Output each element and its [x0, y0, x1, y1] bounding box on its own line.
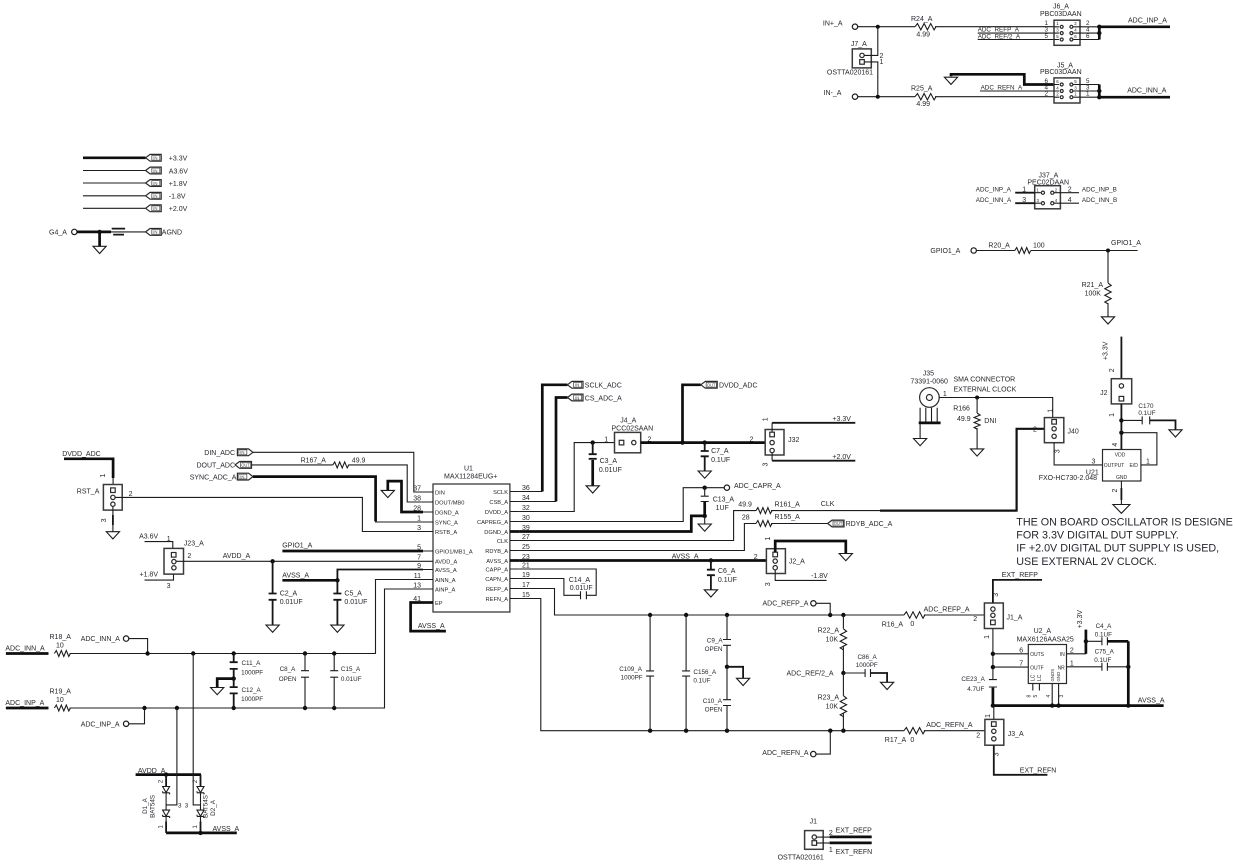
svg-text:1: 1: [984, 635, 991, 639]
wire AINP row: [70, 589, 423, 708]
node DVDD_ADC left: [62, 451, 113, 484]
U1 left pin names: [435, 490, 473, 607]
svg-text:GPIO1/MB1_A: GPIO1/MB1_A: [435, 549, 473, 555]
svg-text:2: 2: [1068, 187, 1072, 194]
wire REFP pin17 row: [520, 589, 904, 616]
svg-text:CAPN_A: CAPN_A: [485, 577, 508, 583]
svg-text:OPEN: OPEN: [705, 706, 723, 713]
svg-text:1: 1: [943, 391, 947, 398]
svg-text:GNDS: GNDS: [1050, 669, 1055, 682]
resistor R19_A 10: [50, 689, 72, 711]
svg-text:U1: U1: [464, 466, 473, 473]
wire J35 pin1 to J40: [939, 391, 1052, 417]
wire CLK pin27: [520, 511, 756, 541]
svg-text:3: 3: [1086, 84, 1090, 91]
svg-text:3: 3: [185, 803, 189, 810]
svg-text:CS_ADC_A: CS_ADC_A: [585, 395, 622, 402]
svg-text:DVDD_A: DVDD_A: [485, 510, 508, 516]
wire IN- to R25: [858, 96, 915, 98]
svg-text:2: 2: [1033, 427, 1037, 434]
svg-text:1: 1: [167, 536, 171, 543]
wire/label ADC_INN_B J37 pin4: [1060, 197, 1117, 204]
junction C6: [709, 558, 713, 562]
connector J37_A PEC02DAAN: [1027, 172, 1069, 209]
node ADC_REF/2_A at J6: [978, 34, 1054, 41]
svg-text:0.01UF: 0.01UF: [570, 585, 593, 592]
svg-text:DOUT_ADC: DOUT_ADC: [197, 463, 236, 470]
svg-text:ADC_INN_B: ADC_INN_B: [1082, 197, 1117, 204]
wire J1 pin2 EXT_REFP: [817, 827, 873, 837]
svg-text:+2.0V: +2.0V: [169, 206, 188, 213]
capacitor C12_A 1000PF: [230, 679, 264, 708]
junction GPIO1: [1106, 249, 1110, 253]
wire net ADC_INP_A: [1099, 18, 1170, 27]
tag DIN_ADC: [204, 449, 253, 457]
svg-text:4: 4: [1112, 443, 1119, 447]
svg-text:C14_A: C14_A: [569, 577, 591, 584]
resistor R167_A 49.9: [252, 458, 366, 468]
IC U21 FXO-HC730-2.048: [1039, 450, 1141, 483]
svg-text:2: 2: [829, 830, 833, 837]
terminal IN-_A: [824, 90, 858, 99]
terminal IN+_A: [823, 20, 858, 29]
connector RST_A: [77, 485, 122, 511]
svg-text:5: 5: [1045, 33, 1049, 40]
svg-text:4: 4: [1046, 695, 1052, 698]
junction AVDD diode: [164, 772, 168, 776]
svg-text:IN+_A: IN+_A: [823, 20, 843, 27]
wire R17 to J3_A: [924, 722, 985, 740]
svg-text:ADC_INP_A: ADC_INP_A: [976, 187, 1012, 194]
terminal ADC_REFP_A: [763, 601, 831, 615]
svg-text:3: 3: [417, 525, 421, 532]
svg-text:49.9: 49.9: [738, 502, 752, 509]
svg-text:PBC03DAAN: PBC03DAAN: [1040, 11, 1082, 18]
svg-text:R161_A: R161_A: [775, 502, 801, 509]
svg-text:RDYB_ADC_A: RDYB_ADC_A: [846, 521, 893, 528]
connector J4_A PCC02SAAN: [604, 418, 653, 453]
wire R25 to J5: [935, 96, 1054, 98]
capacitor C15_A 0.01UF: [330, 654, 362, 709]
svg-text:1: 1: [762, 417, 769, 421]
svg-text:GND: GND: [1116, 475, 1128, 481]
svg-text:AINP_A: AINP_A: [435, 587, 455, 593]
wire U2 pin7 OUTF: [993, 661, 1028, 668]
svg-text:FXO-HC730-2.048: FXO-HC730-2.048: [1039, 475, 1097, 482]
svg-text:0.01UF: 0.01UF: [280, 599, 303, 606]
svg-text:0.01UF: 0.01UF: [344, 599, 367, 606]
svg-text:28: 28: [413, 505, 421, 512]
svg-text:G4_A: G4_A: [49, 230, 67, 237]
power flag A3.6V: [83, 167, 188, 175]
capacitor C6_A 0.1UF: [707, 561, 737, 590]
svg-text:PBC03DAAN: PBC03DAAN: [1040, 69, 1082, 76]
svg-text:VDD: VDD: [1115, 452, 1126, 458]
svg-text:3: 3: [1092, 458, 1096, 465]
svg-text:3: 3: [178, 803, 182, 810]
wire GPIO1_A net: [1031, 240, 1141, 251]
capacitor CE23_A 4.7UF: [961, 676, 997, 706]
svg-text:0.1UF: 0.1UF: [1138, 410, 1155, 417]
resistor R155_A 28: [742, 514, 800, 526]
svg-text:3: 3: [994, 752, 1001, 756]
wire J5 outputs bus: [1080, 85, 1099, 99]
ground G4: [93, 232, 106, 254]
svg-text:1: 1: [1048, 409, 1055, 413]
svg-text:2: 2: [754, 554, 758, 561]
svg-text:1: 1: [765, 537, 772, 541]
svg-text:EXT_REFN: EXT_REFN: [1020, 768, 1057, 775]
svg-text:1000PF: 1000PF: [621, 675, 643, 682]
svg-text:0.01UF: 0.01UF: [341, 676, 362, 683]
svg-text:GND: GND: [1056, 672, 1061, 682]
junction DVDD tag drop: [680, 440, 684, 444]
junction ADC_REF/2: [787, 670, 846, 677]
svg-text:6: 6: [1086, 33, 1090, 40]
wire J1_A pin1 down: [984, 629, 993, 680]
tag RDYB_ADC_A: [771, 520, 893, 528]
svg-text:FOR 3.3V DIGITAL DUT SUPPLY.: FOR 3.3V DIGITAL DUT SUPPLY.: [1016, 530, 1179, 542]
capacitor C156_A 0.1UF: [682, 615, 717, 731]
svg-text:13: 13: [413, 582, 421, 589]
svg-text:J32: J32: [788, 437, 799, 444]
svg-text:2: 2: [973, 616, 977, 623]
svg-text:EXT_REFP: EXT_REFP: [836, 827, 873, 834]
svg-text:C170: C170: [1138, 403, 1154, 410]
wire C4 right vertical: [1127, 641, 1130, 705]
svg-text:ADC_INP_A: ADC_INP_A: [5, 700, 44, 707]
junction J4 pin1 C3: [591, 440, 595, 444]
tag DOUT_ADC: [197, 462, 252, 470]
op-amp U1 MAX11284EUG+ box: [433, 466, 510, 612]
wire +3.3V U2: [1077, 610, 1086, 654]
ground C6: [704, 590, 717, 597]
wire U2 pin2 IN: [1067, 647, 1086, 654]
svg-text:PCC02SAAN: PCC02SAAN: [612, 426, 654, 433]
capacitor C86_A 1000PF: [843, 654, 887, 682]
svg-text:R19_A: R19_A: [50, 689, 72, 696]
svg-text:OPEN: OPEN: [705, 646, 723, 653]
connector J6_A PBC03DAAN: [1040, 4, 1090, 46]
wire AVSS pin23 row: [520, 553, 767, 560]
node ADC_INN_A left: [5, 646, 48, 654]
wire U2 pin1 NR / capacitor C75_A 0.1UF: [1067, 648, 1129, 671]
svg-text:IF +2.0V DIGITAL DUT SUPPLY IS: IF +2.0V DIGITAL DUT SUPPLY IS USED,: [1016, 543, 1219, 555]
svg-text:4.99: 4.99: [916, 101, 930, 108]
diode D1_A BAT54S: [142, 775, 182, 833]
svg-text:ADC_REFN_A: ADC_REFN_A: [981, 84, 1023, 91]
svg-text:REFP_A: REFP_A: [486, 587, 508, 593]
ground J2_A pin1: [839, 554, 852, 561]
ground C7: [698, 471, 711, 478]
wire CSB into pin34: [520, 501, 556, 503]
svg-text:J40: J40: [1068, 429, 1079, 436]
wire diode bottom AVSS_A: [166, 826, 239, 833]
svg-text:+3.3V: +3.3V: [1077, 610, 1084, 629]
ground C86: [881, 682, 894, 689]
wire AINN row: [70, 580, 423, 654]
svg-text:2: 2: [158, 779, 165, 783]
svg-text:C13_A: C13_A: [713, 496, 735, 503]
svg-text:DIN_ADC: DIN_ADC: [204, 450, 235, 457]
wire J1_A pin3 EXT_REFP: [993, 572, 1042, 603]
svg-text:AVDD_A: AVDD_A: [435, 560, 458, 566]
wire J7 pin2: [864, 27, 883, 61]
note text: [1016, 516, 1233, 568]
svg-text:CE23_A: CE23_A: [961, 676, 985, 683]
ground U21: [1113, 505, 1130, 514]
U2 bottom pin stubs: [1027, 684, 1065, 706]
connector J2_A: [754, 549, 805, 574]
junction J5 bus: [1097, 89, 1101, 100]
capacitor C8_A OPEN: [279, 654, 309, 709]
wire net ADC_INN_A: [1099, 88, 1170, 98]
svg-text:37: 37: [413, 485, 421, 492]
svg-text:-1.8V: -1.8V: [811, 573, 828, 580]
svg-text:ADC_INN_A: ADC_INN_A: [81, 636, 121, 643]
svg-text:17: 17: [522, 582, 530, 589]
svg-text:OPEN: OPEN: [279, 676, 297, 683]
svg-text:+1.8V: +1.8V: [140, 572, 159, 579]
svg-text:CAPREG_A: CAPREG_A: [477, 520, 508, 526]
svg-text:OUTF: OUTF: [1030, 665, 1044, 671]
node ADC_REFP_A at J6: [978, 27, 1054, 34]
wire GPIO1_A row: [282, 543, 423, 551]
svg-text:100: 100: [1033, 242, 1045, 249]
capacitor C5_A 0.01UF: [333, 580, 367, 625]
wire DVDD_A pin32 to J4 pin1: [520, 443, 615, 512]
connector J23_A: [164, 540, 204, 574]
wire J40 pin3 to U21: [1054, 443, 1102, 466]
svg-text:4.7UF: 4.7UF: [967, 686, 984, 693]
svg-text:ADC_INP_B: ADC_INP_B: [1082, 187, 1117, 194]
node AVDD_A diodes: [136, 768, 201, 775]
svg-text:3: 3: [167, 583, 171, 590]
svg-text:1: 1: [192, 825, 199, 829]
svg-text:DOUT/MB0: DOUT/MB0: [435, 500, 464, 506]
svg-text:38: 38: [413, 495, 421, 502]
wire J32 pin3 +2.0V: [762, 453, 855, 467]
svg-text:IN-_A: IN-_A: [824, 90, 842, 97]
svg-text:SYNC_A: SYNC_A: [435, 520, 458, 526]
svg-text:ADC_INN_A: ADC_INN_A: [5, 646, 45, 653]
wire thick hook to J5 pin6: [951, 74, 1054, 84]
svg-text:3: 3: [762, 463, 769, 467]
node A3.6V J23: [139, 534, 173, 549]
svg-text:R17_A: R17_A: [885, 737, 907, 744]
svg-text:AVSS_A: AVSS_A: [672, 553, 699, 560]
tag SCLK_ADC: [542, 381, 621, 491]
capacitor C13_A 1UF: [701, 488, 735, 516]
wire J2 pin1 down: [1109, 404, 1122, 433]
svg-text:CAPP_A: CAPP_A: [486, 567, 509, 573]
power flag +1.8V: [83, 180, 188, 188]
connector J40: [1033, 409, 1079, 443]
svg-text:J4_A: J4_A: [620, 418, 636, 425]
svg-text:RDYB_A: RDYB_A: [485, 549, 508, 555]
svg-text:J37_A: J37_A: [1039, 172, 1059, 179]
svg-text:C12_A: C12_A: [242, 687, 262, 694]
wire U21 GND pin2: [1112, 481, 1122, 505]
svg-text:0.01UF: 0.01UF: [599, 467, 622, 474]
ground R21: [1101, 317, 1114, 324]
resistor R16_A 0: [882, 612, 925, 629]
capacitor C170 0.1UF: [1121, 403, 1175, 430]
resistor R22_A 10K: [818, 615, 847, 673]
capacitor C11_A 1000PF: [230, 654, 264, 679]
svg-text:E/D: E/D: [1130, 463, 1139, 469]
svg-text:2: 2: [129, 491, 133, 498]
svg-text:USE EXTERNAL 2V CLOCK.: USE EXTERNAL 2V CLOCK.: [1016, 556, 1157, 568]
junction AVSS row: [991, 703, 1131, 707]
power flag +3.3V: [83, 154, 188, 162]
svg-text:RSTB_A: RSTB_A: [435, 530, 457, 536]
svg-text:ADC_INP_A: ADC_INP_A: [1128, 18, 1167, 25]
terminal ADC_INP_A: [81, 708, 145, 728]
svg-text:73391-0060: 73391-0060: [911, 379, 948, 386]
IC U2_A MAX6126AASA25: [1017, 628, 1074, 683]
capacitor C2_A 0.01UF: [269, 561, 303, 625]
svg-text:1000PF: 1000PF: [856, 662, 878, 669]
svg-text:36: 36: [522, 485, 530, 492]
svg-text:J3_A: J3_A: [1008, 731, 1024, 738]
wire IN+ to R24: [858, 26, 915, 28]
svg-text:ADC_CAPR_A: ADC_CAPR_A: [734, 483, 781, 490]
wire G4_A: [77, 231, 146, 234]
svg-text:3: 3: [1059, 695, 1065, 698]
svg-text:0.1UF: 0.1UF: [711, 457, 730, 464]
svg-text:AVSS_A: AVSS_A: [213, 826, 240, 833]
svg-text:THE ON BOARD OSCILLATOR IS DES: THE ON BOARD OSCILLATOR IS DESIGNED: [1016, 516, 1233, 528]
junction AINN row: [145, 651, 336, 655]
svg-text:C9_A: C9_A: [707, 638, 724, 645]
svg-text:0.1UF: 0.1UF: [1094, 657, 1111, 664]
svg-text:1UF: 1UF: [716, 505, 729, 512]
wire U21 E/D pin1 loop: [1121, 433, 1157, 466]
svg-text:C11_A: C11_A: [242, 660, 262, 667]
svg-text:C3_A: C3_A: [600, 458, 618, 465]
svg-text:R167_A: R167_A: [301, 458, 327, 465]
svg-text:1: 1: [1146, 458, 1150, 465]
svg-text:R20_A: R20_A: [988, 242, 1010, 249]
wire AVDD_A row: [176, 553, 423, 561]
svg-text:AVSS_A: AVSS_A: [282, 572, 309, 579]
svg-text:C2_A: C2_A: [280, 591, 298, 598]
svg-text:3: 3: [993, 593, 1000, 597]
svg-text:3: 3: [1055, 449, 1062, 453]
svg-text:SYNC_ADC_A: SYNC_ADC_A: [190, 475, 237, 482]
wire R16 to J1_A: [924, 607, 985, 623]
svg-text:ADC_INP_A: ADC_INP_A: [81, 721, 120, 728]
connector J3_A: [985, 719, 1024, 745]
tag SYNC_ADC_A: [190, 473, 253, 481]
svg-text:R23_A: R23_A: [818, 695, 840, 702]
svg-text:34: 34: [522, 495, 530, 502]
connector J32: [750, 430, 800, 456]
svg-text:BAT54S: BAT54S: [202, 795, 209, 818]
svg-text:J6_A: J6_A: [1053, 4, 1069, 11]
svg-text:1: 1: [1109, 413, 1116, 417]
svg-text:IN: IN: [1060, 652, 1065, 658]
svg-text:CLK: CLK: [821, 501, 835, 508]
node ADC_INP_A left: [5, 700, 48, 708]
connector J1 OSTTA020161: [778, 819, 824, 862]
junction G4: [97, 230, 101, 234]
svg-text:49.9: 49.9: [352, 458, 366, 465]
SMA shield: [914, 408, 941, 446]
svg-text:J1: J1: [810, 819, 818, 826]
svg-text:1: 1: [829, 847, 833, 854]
svg-text:OSTTA020161: OSTTA020161: [827, 69, 873, 76]
svg-text:2: 2: [187, 553, 191, 560]
svg-text:D1_A: D1_A: [142, 797, 149, 814]
junction R166: [975, 396, 979, 400]
svg-text:C15_A: C15_A: [341, 666, 361, 673]
wire R167 to DOUT pin: [348, 465, 423, 502]
wire DGND pin39: [520, 516, 705, 532]
wire C9 gnd hook: [727, 667, 750, 686]
resistor R17_A 0: [885, 728, 925, 745]
svg-text:OUTPUT: OUTPUT: [1104, 463, 1125, 469]
junction IN+: [876, 25, 880, 29]
svg-text:R155_A: R155_A: [775, 514, 801, 521]
svg-text:DNI: DNI: [984, 418, 996, 425]
resistor R24_A 4.99: [911, 16, 936, 39]
capacitor C10_A OPEN: [703, 667, 731, 731]
wire U21 VDD pin4: [1112, 433, 1122, 450]
svg-text:1: 1: [1070, 661, 1074, 668]
svg-text:NR: NR: [1058, 665, 1066, 671]
svg-text:+3.3V: +3.3V: [169, 156, 188, 163]
svg-text:1: 1: [1022, 187, 1026, 194]
capacitor C9_A OPEN: [705, 615, 731, 667]
svg-text:25: 25: [522, 544, 530, 551]
wire DGND hook: [388, 481, 423, 512]
U1 right pin numbers: [522, 485, 530, 599]
svg-text:RST_A: RST_A: [77, 489, 100, 496]
resistor R23_A 10K: [818, 673, 847, 731]
svg-text:1: 1: [158, 825, 165, 829]
svg-text:AINN_A: AINN_A: [435, 578, 456, 584]
svg-text:J1_A: J1_A: [1007, 615, 1023, 622]
wire RDYB pin25: [520, 524, 756, 551]
svg-text:C75_A: C75_A: [1095, 648, 1115, 655]
junction C7: [703, 440, 707, 444]
terminal GPIO1_A: [930, 248, 976, 255]
junction U21 vdd: [1119, 431, 1123, 435]
svg-text:J7_A: J7_A: [851, 41, 867, 48]
wire AVSS_A row right: [993, 698, 1165, 706]
svg-text:ADC_REFP_A: ADC_REFP_A: [763, 601, 809, 608]
ground C5: [331, 625, 344, 632]
svg-text:MAX6126AASA25: MAX6126AASA25: [1017, 637, 1074, 644]
wire +3.3V J2: [1102, 337, 1121, 379]
junction C11/C12: [232, 676, 236, 680]
svg-text:10K: 10K: [826, 704, 839, 711]
svg-text:9: 9: [417, 563, 421, 570]
wire/label ADC_INN_A J37 pin3: [976, 197, 1035, 204]
ground C3: [586, 486, 599, 493]
svg-text:DVDD_ADC: DVDD_ADC: [719, 383, 758, 390]
svg-text:MAX11284EUG+: MAX11284EUG+: [444, 473, 497, 480]
svg-text:C7_A: C7_A: [711, 448, 729, 455]
U1 right pin names: [477, 490, 508, 603]
svg-text:1: 1: [604, 437, 608, 444]
svg-text:27: 27: [522, 534, 530, 541]
ground R166: [971, 449, 984, 456]
svg-text:DIN: DIN: [435, 490, 445, 496]
resistor R161_A 49.9: [738, 502, 800, 514]
